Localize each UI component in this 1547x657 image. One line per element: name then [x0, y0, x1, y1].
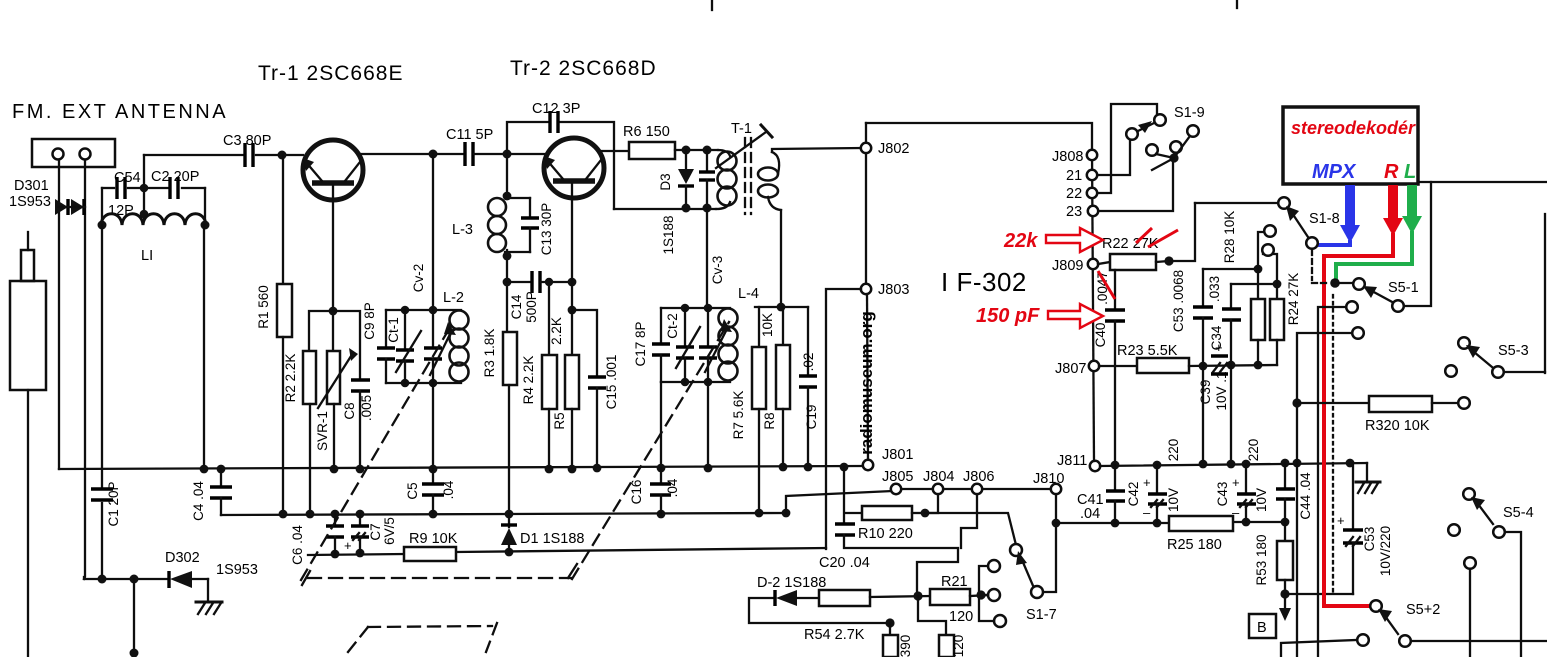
resistor R8 10K — [776, 307, 790, 469]
coil L1 tank top wire with C54 and C2 — [102, 187, 114, 189]
svg-text:+: + — [1232, 475, 1240, 490]
svg-text:C34: C34 — [1209, 325, 1224, 350]
resistor R9 10K — [404, 547, 456, 561]
svg-text:D-2 1S188: D-2 1S188 — [757, 575, 826, 591]
capacitor C13 30P — [521, 198, 539, 252]
wire R3 down through crossing to D1 — [508, 385, 510, 514]
transformer T-1 secondary — [758, 152, 781, 210]
wire R21 right to switch — [970, 595, 988, 596]
transistor Tr-1 2SC668E — [303, 140, 363, 200]
resistor R1 560 — [277, 284, 292, 337]
svg-text:R6 150: R6 150 — [623, 124, 670, 140]
wire L1 right leg down to AVC bus — [203, 225, 205, 469]
node pin 21 — [1087, 170, 1097, 180]
junction dots on AGC line — [331, 548, 514, 559]
svg-text:C54: C54 — [114, 170, 141, 186]
node J804 — [933, 484, 943, 494]
svg-text:C4 .04: C4 .04 — [191, 481, 206, 521]
svg-text:C11 5P: C11 5P — [446, 127, 493, 143]
junction dots on AVC bus — [200, 463, 849, 474]
svg-text:L: L — [1404, 161, 1416, 183]
node J811 wire to output bus — [1100, 463, 1367, 466]
switch S5-4 — [1448, 488, 1521, 657]
svg-text:J806: J806 — [963, 469, 994, 485]
svg-text:LI: LI — [141, 248, 153, 264]
wire C8 to AVC bus — [359, 391, 361, 469]
wire R6 to T-1 primary top — [675, 149, 718, 151]
diode D1 1S188 — [501, 514, 517, 552]
diode D3 1S188 — [678, 150, 694, 208]
svg-text:C5: C5 — [405, 482, 420, 499]
switch S1-9 wiring from pin 21 — [1098, 139, 1130, 175]
junction dots on bypass bus — [279, 509, 791, 519]
junction dots on decoder ground column — [1292, 398, 1301, 407]
node J806 — [972, 484, 982, 494]
svg-text:R9 10K: R9 10K — [409, 531, 458, 547]
capacitor C6 .04 — [326, 514, 344, 554]
ground below D302 — [196, 602, 222, 614]
svg-text:R54 2.7K: R54 2.7K — [804, 627, 865, 643]
resistor R54 2.7K — [819, 590, 870, 606]
svg-text:220: 220 — [1166, 439, 1181, 462]
svg-text:.04: .04 — [441, 480, 456, 499]
capacitor C14 500P — [507, 271, 572, 293]
resistor R7 5.6K — [752, 307, 766, 513]
resistor R5 2.2K — [565, 355, 579, 409]
svg-text:stereodekodér: stereodekodér — [1291, 118, 1416, 138]
switch S5-3 — [1445, 337, 1545, 378]
svg-text:10K: 10K — [760, 313, 775, 337]
wire Tr-2 emitter column down — [571, 183, 573, 355]
wire top RF line — [144, 154, 244, 156]
diode D301 (double) — [55, 199, 85, 215]
node pin 23 — [1088, 206, 1098, 216]
node J807 — [1089, 361, 1099, 371]
capacitor C40 .0047 — [1105, 270, 1125, 464]
resistor R320 10K — [1297, 396, 1470, 412]
wire riser to tank 1 — [432, 154, 434, 310]
trimmer Ct-2 — [676, 308, 700, 382]
svg-text:22: 22 — [1066, 186, 1082, 202]
registration tick top 1 — [711, 0, 713, 10]
node J802 — [861, 143, 871, 153]
svg-text:.04: .04 — [665, 478, 680, 497]
svg-text:L-3: L-3 — [452, 222, 473, 238]
wire Tr-1 collector to C11 — [361, 153, 464, 155]
svg-text:R320 10K: R320 10K — [1365, 418, 1430, 434]
wire R5 to AVC bus — [571, 409, 573, 469]
wire J-row horizontal — [893, 488, 1056, 490]
wire base node to C8 — [333, 311, 360, 380]
svg-text:.033: .033 — [1207, 276, 1222, 302]
node J805 — [891, 484, 901, 494]
wire right edge vertical — [1544, 214, 1546, 373]
svg-text:R: R — [1384, 161, 1399, 183]
svg-text:120: 120 — [951, 635, 966, 657]
capacitor C11 5P — [465, 142, 473, 166]
power arrow below R53 — [1279, 596, 1291, 621]
capacitor C9 8P — [377, 310, 395, 383]
svg-text:C44 .04: C44 .04 — [1298, 472, 1313, 520]
svg-text:120: 120 — [949, 609, 973, 625]
svg-text:10V: 10V — [1166, 488, 1181, 512]
wire tank1 down to AVC bus — [432, 383, 434, 469]
transformer T-1 slug arrow — [716, 125, 772, 168]
svg-text:150 pF: 150 pF — [976, 305, 1040, 327]
svg-text:+: + — [344, 538, 352, 553]
svg-text:1S953: 1S953 — [216, 562, 258, 578]
switch S1-9 — [1126, 114, 1199, 170]
resistor 390 vertical — [883, 618, 898, 657]
svg-text:Tr-1 2SC668E: Tr-1 2SC668E — [258, 62, 403, 85]
dashed tuning gang outline bottom edge — [302, 564, 577, 585]
svg-text:.005: .005 — [359, 395, 374, 421]
annotation strikethrough on 27K — [1136, 228, 1152, 243]
svg-text:J804: J804 — [923, 469, 954, 485]
node J811 — [1090, 461, 1100, 471]
wire stub down from D302 line — [133, 579, 135, 653]
resistor R24 27K — [1262, 244, 1284, 365]
svg-text:S5-1: S5-1 — [1388, 280, 1419, 296]
resistor R23 5.5K — [1137, 358, 1189, 373]
wire Tr-2 base column — [506, 154, 508, 198]
wire Tr-1 base column down to SVR node — [332, 185, 334, 351]
svg-text:–: – — [1143, 505, 1151, 520]
svg-text:FM. EXT ANTENNA: FM. EXT ANTENNA — [12, 101, 228, 123]
svg-text:500P: 500P — [524, 291, 539, 323]
svg-text:C14: C14 — [509, 294, 524, 319]
svg-text:J809: J809 — [1052, 258, 1083, 274]
junction dots on output bus — [1111, 459, 1355, 470]
wire J803 left and down to AGC line — [826, 289, 861, 549]
svg-text:C15 .001: C15 .001 — [604, 355, 619, 410]
resistor R4 2.2K — [542, 355, 557, 409]
variable capacitor Cv-2 — [424, 310, 456, 383]
wire tank2 Cv-3 leg to AVC bus — [707, 382, 709, 469]
wire riser from top wire into L1 tank — [143, 155, 145, 220]
node Tr-2 emitter column joints — [568, 278, 577, 287]
svg-text:C39: C39 — [1198, 380, 1213, 405]
wire R22 output up to S1-8 line — [1169, 203, 1195, 261]
svg-text:R28 10K: R28 10K — [1222, 211, 1237, 264]
resistor R28 10K — [1251, 225, 1276, 365]
svg-text:J808: J808 — [1052, 149, 1083, 165]
svg-text:C1 20P: C1 20P — [106, 481, 121, 526]
capacitor C53 10V/220 electrolytic — [1337, 463, 1363, 594]
junction dots on audio bus — [1111, 518, 1290, 528]
capacitor C44 .04 — [1276, 463, 1295, 522]
capacitor C17 8P — [652, 308, 670, 382]
diode D-2 1S188 — [749, 590, 890, 623]
svg-text:10V .1: 10V .1 — [1214, 371, 1229, 410]
svg-text:S1-7: S1-7 — [1026, 607, 1057, 623]
svg-text:1S188: 1S188 — [661, 215, 676, 254]
dashed gang line through Cv-3 — [572, 322, 729, 579]
coil L-3 — [488, 198, 530, 252]
svg-text:C6 .04: C6 .04 — [290, 525, 305, 565]
svg-text:R3 1.8K: R3 1.8K — [482, 329, 497, 378]
wire C34 top to R24 — [1231, 283, 1277, 285]
node pin 22 — [1087, 188, 1097, 198]
wire R10 node to S1-7 wiper — [925, 513, 1016, 545]
resistor R22 27K — [1098, 254, 1174, 270]
tank 1 bottom wire — [386, 382, 461, 384]
switch S1-9 wiring from pin 23 — [1099, 163, 1173, 211]
wire J804 down to R10 node — [925, 494, 938, 513]
resistor R53 180 — [1277, 522, 1293, 599]
svg-text:J803: J803 — [878, 282, 909, 298]
switch S1-9 wiring from pin 22 — [1098, 104, 1157, 193]
node C3/R1 junction — [278, 151, 287, 160]
svg-text:Ct-1: Ct-1 — [386, 317, 401, 343]
svg-text:J810: J810 — [1033, 471, 1064, 487]
dashed gang line through Cv-2 — [301, 324, 452, 580]
wire tank2 left leg to AVC bus through C16 — [660, 382, 662, 469]
wire AGC line (third horizontal) — [308, 554, 404, 555]
wire S1-8 feed line — [1195, 202, 1279, 204]
svg-text:22k: 22k — [1003, 230, 1038, 252]
svg-text:R25 180: R25 180 — [1167, 537, 1222, 553]
node Cv-2 riser junction — [429, 150, 438, 159]
capacitor C20 .04 — [835, 467, 958, 593]
switch S5-1 — [1297, 182, 1431, 657]
transformer T-1 core — [745, 138, 751, 214]
tank 2 bottom wire — [661, 381, 730, 383]
svg-text:12P: 12P — [108, 203, 134, 219]
svg-text:R24 27K: R24 27K — [1286, 273, 1301, 326]
svg-text:S5-3: S5-3 — [1498, 343, 1529, 359]
capacitor C5 .04 — [422, 469, 444, 514]
wire audio bus lower — [1056, 522, 1169, 524]
resistor R3 1.8K — [503, 332, 517, 385]
resistor R25 180 — [1169, 516, 1233, 531]
wire R4 to AVC bus — [548, 409, 550, 469]
dashed lower block outline — [348, 623, 497, 652]
wire L green arrow and path to S5-1 — [1336, 185, 1422, 281]
node J808 — [1087, 150, 1097, 160]
resistor R21 120 — [930, 589, 970, 605]
stereo decoder box — [1283, 107, 1418, 184]
coil L-2 — [450, 311, 469, 382]
wire C11 to Tr-2 — [474, 153, 546, 155]
wire J806 staircase down — [961, 494, 977, 548]
node J801 — [863, 460, 873, 470]
coil L1 — [98, 188, 210, 230]
capacitor T-1 primary tuning cap — [699, 150, 715, 208]
wire base node to R2 — [309, 311, 333, 351]
wire R54 to R21 node — [870, 596, 930, 597]
node J810 — [1051, 484, 1061, 494]
svg-text:23: 23 — [1066, 204, 1082, 220]
svg-text:D1 1S188: D1 1S188 — [520, 531, 585, 547]
antenna plug symbol — [10, 232, 46, 657]
variable capacitor Cv-3 — [699, 308, 732, 382]
wire R2 to bypass bus — [309, 404, 311, 514]
wire detector output line R7 R8 C19 — [755, 306, 808, 308]
capacitor C39 10V .1 electrolytic — [1211, 340, 1228, 374]
svg-text:C20 .04: C20 .04 — [819, 555, 870, 571]
wire C12 bypass branch — [507, 122, 549, 154]
capacitor C15 .001 — [588, 377, 606, 469]
wire R1 to bypass bus — [282, 337, 284, 514]
wire stereo box to right edge — [1418, 181, 1547, 183]
wire C15 branch — [572, 310, 597, 377]
svg-text:C12 3P: C12 3P — [532, 101, 580, 117]
transistor Tr-2 2SC668D — [544, 138, 604, 198]
svg-text:.02: .02 — [801, 353, 816, 372]
tank 2 top wire — [661, 307, 730, 309]
capacitor C53 .0068 — [1193, 269, 1213, 464]
dashed link S1-8 to S5-1 — [1312, 250, 1330, 283]
annotation arrow for 150 pF — [1048, 304, 1103, 328]
wire T-1 secondary bottom down to detector line — [780, 210, 782, 307]
transformer T-1 primary — [716, 150, 737, 209]
capacitor C42 220/10V electrolytic — [1143, 465, 1167, 523]
wire J805 feed from bypass bus — [786, 491, 892, 513]
svg-text:C19: C19 — [804, 405, 819, 430]
node J809 — [1088, 259, 1098, 269]
wire Tr-2 collector to R6 — [602, 150, 629, 152]
wire R red arrow and path to S5-2 — [1324, 185, 1403, 606]
dotted line mpx mono link — [1332, 295, 1334, 592]
wire R4 branch — [548, 282, 550, 355]
svg-text:10V: 10V — [1254, 488, 1269, 512]
svg-text:S5-4: S5-4 — [1503, 505, 1534, 521]
svg-text:R7 5.6K: R7 5.6K — [731, 391, 746, 440]
wire D3 bottom return — [614, 208, 716, 210]
label B box — [1249, 614, 1276, 638]
svg-text:–: – — [1232, 505, 1240, 520]
wire C3 junction down to R1 — [282, 155, 284, 284]
svg-text:J807: J807 — [1055, 361, 1086, 377]
antenna terminal box — [32, 139, 115, 167]
capacitor C19 .02 — [799, 307, 817, 469]
capacitor C4 .04 — [210, 469, 232, 515]
svg-text:J805: J805 — [882, 469, 913, 485]
wire MPX blue arrow — [1318, 185, 1360, 245]
wire tank 2 riser — [706, 208, 708, 308]
svg-text:390: 390 — [898, 635, 913, 657]
capacitor C41 .04 — [1106, 465, 1125, 523]
capacitor C1 20P — [91, 489, 113, 500]
svg-text:J802: J802 — [878, 141, 909, 157]
svg-text:R10 220: R10 220 — [858, 526, 913, 542]
svg-text:J801: J801 — [882, 447, 913, 463]
svg-text:Cv-2: Cv-2 — [411, 264, 426, 293]
svg-text:T-1: T-1 — [731, 121, 752, 137]
wire J802 down to J803 — [865, 153, 867, 283]
switch S1-7 — [979, 544, 1043, 627]
wire AVC bus (long horizontal) — [59, 466, 861, 469]
svg-text:C42: C42 — [1126, 482, 1141, 507]
svg-text:S5+2: S5+2 — [1406, 602, 1440, 618]
capacitor C16 .04 — [650, 468, 671, 514]
svg-text:radiomuseum.org: radiomuseum.org — [857, 311, 876, 455]
svg-text:I F-302: I F-302 — [941, 267, 1027, 297]
svg-text:C7: C7 — [368, 523, 383, 540]
svg-text:+: + — [1337, 513, 1345, 528]
svg-text:R2 2.2K: R2 2.2K — [283, 354, 298, 403]
svg-text:D302: D302 — [165, 550, 200, 566]
svg-text:C8: C8 — [342, 402, 357, 419]
capacitor C3 80P — [245, 143, 253, 167]
wire IF block top bus J802 to pins — [866, 123, 1092, 153]
capacitor C34 .033 — [1222, 284, 1241, 464]
svg-text:S1-9: S1-9 — [1174, 105, 1205, 121]
wire C53 top to R28 — [1203, 268, 1258, 270]
resistor R6 150 — [629, 142, 675, 159]
wire antenna right lead down to D302 line — [84, 160, 85, 579]
wire L-3 bottom to C14 node — [506, 250, 508, 332]
annotation arrow for 22k — [1046, 228, 1103, 252]
coil L-4 — [719, 309, 738, 381]
wire IF pin bus vertical — [1092, 150, 1094, 461]
capacitor C54 12P — [117, 177, 125, 199]
trimmer Ct-1 — [396, 310, 421, 383]
svg-text:D301: D301 — [14, 178, 49, 194]
svg-text:R8: R8 — [762, 412, 777, 429]
svg-text:R23 5.5K: R23 5.5K — [1117, 343, 1178, 359]
svg-text:S1-8: S1-8 — [1309, 211, 1340, 227]
wire SVR-1 to AVC bus — [333, 404, 335, 469]
capacitor C12 3P — [550, 111, 558, 133]
svg-text:J811: J811 — [1057, 453, 1087, 469]
node J803 — [861, 284, 871, 294]
tank 1 top wire — [386, 309, 461, 311]
capacitor C7 6V/5 electrolytic — [344, 514, 369, 553]
svg-text:R22 27K: R22 27K — [1102, 236, 1159, 252]
svg-text:21: 21 — [1066, 168, 1082, 184]
annotation strikethrough on .0047 — [1098, 271, 1115, 299]
switch S1-8 — [1278, 197, 1318, 249]
svg-text:+: + — [1143, 475, 1151, 490]
svg-text:C13 30P: C13 30P — [539, 203, 554, 256]
wire J803 to J801 segment — [867, 294, 868, 460]
wire R23 to R28 R24 bottoms — [1189, 365, 1277, 366]
svg-text:C53: C53 — [1362, 527, 1377, 552]
svg-text:L-2: L-2 — [443, 290, 464, 306]
registration tick top 2 — [1236, 0, 1238, 8]
switch S5-2 — [1281, 600, 1547, 657]
svg-text:L-4: L-4 — [738, 286, 759, 302]
svg-text:Cv-3: Cv-3 — [710, 256, 725, 285]
svg-text:1S953: 1S953 — [9, 194, 51, 210]
svg-text:B: B — [1257, 620, 1267, 636]
resistor R10 220 — [845, 506, 929, 520]
svg-text:C53 .0068: C53 .0068 — [1171, 270, 1186, 332]
svg-text:R1 560: R1 560 — [256, 285, 271, 329]
capacitor C43 220/10V electrolytic — [1232, 465, 1256, 522]
wire T-1 secondary top to J802 — [772, 148, 861, 152]
wire antenna left lead to AVC bus — [58, 160, 60, 469]
svg-text:R5: R5 — [552, 412, 567, 429]
svg-text:C3 80P: C3 80P — [223, 133, 271, 149]
svg-text:SVR-1: SVR-1 — [315, 411, 330, 451]
diode D302 1S953 — [169, 571, 208, 601]
svg-text:2.2K: 2.2K — [549, 317, 564, 345]
svg-text:Ct-2: Ct-2 — [665, 313, 680, 339]
wire J807 line — [1099, 365, 1137, 367]
svg-text:R4 2.2K: R4 2.2K — [521, 356, 536, 405]
svg-text:R53 180: R53 180 — [1254, 534, 1269, 585]
svg-text:C17 8P: C17 8P — [633, 321, 648, 366]
resistor R2 2.2K — [303, 351, 316, 404]
svg-text:C40: C40 — [1093, 323, 1108, 348]
svg-text:C43: C43 — [1215, 482, 1230, 507]
wire D302 return line — [84, 577, 168, 579]
wire bypass bus (second horizontal) — [221, 513, 786, 515]
annotation arrow label J802 bus tick — [865, 122, 867, 124]
